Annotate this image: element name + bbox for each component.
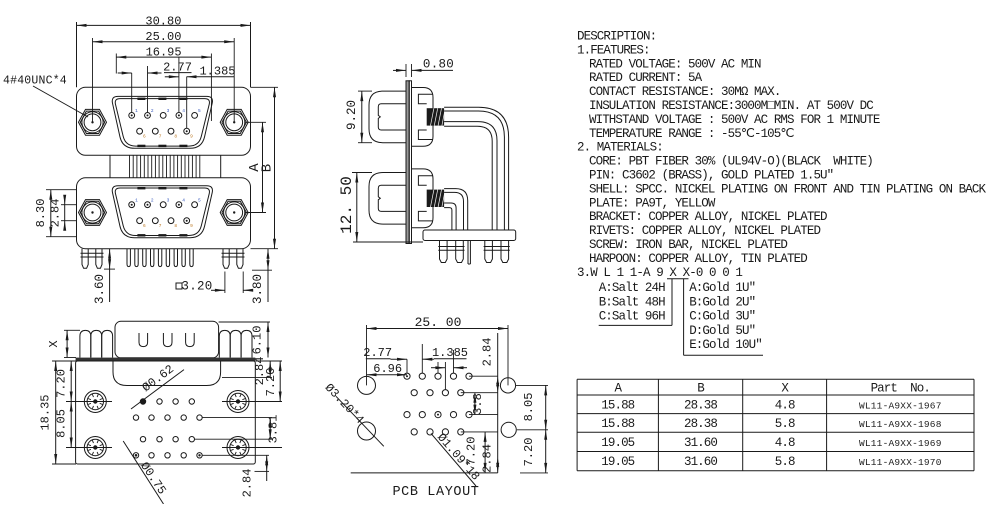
svg-text:WL11-A9XX-1968: WL11-A9XX-1968: [859, 419, 942, 430]
svg-text:4: 4: [182, 108, 185, 114]
svg-text:WL11-A9XX-1967: WL11-A9XX-1967: [859, 401, 942, 412]
svg-text:Part No.: Part No.: [871, 381, 930, 395]
svg-text:3: 3: [167, 108, 170, 114]
svg-text:4.8: 4.8: [775, 436, 795, 450]
svg-text:2.84: 2.84: [481, 444, 495, 473]
svg-text:SHELL: SPCC. NICKEL PLATING ON: SHELL: SPCC. NICKEL PLATING ON FRONT AND…: [589, 182, 986, 196]
svg-text:INSULATION RESISTANCE:3000M□MI: INSULATION RESISTANCE:3000M□MIN. AT 500V…: [589, 99, 873, 113]
svg-text:B:Gold 2U″: B:Gold 2U″: [689, 295, 755, 309]
svg-text:E:Gold 10U″: E:Gold 10U″: [689, 338, 762, 352]
svg-text:RATED CURRENT: 5A: RATED CURRENT: 5A: [589, 71, 703, 85]
svg-text:BRACKET: COPPER ALLOY, NICKEL: BRACKET: COPPER ALLOY, NICKEL PLATED: [589, 210, 827, 224]
svg-text:1.FEATURES:: 1.FEATURES:: [577, 43, 650, 57]
svg-text:2: 2: [151, 198, 154, 204]
svg-text:RIVETS: COPPER ALLOY, NICKEL P: RIVETS: COPPER ALLOY, NICKEL PLATED: [589, 224, 820, 238]
svg-text:RATED VOLTAGE: 500V AC MIN: RATED VOLTAGE: 500V AC MIN: [589, 57, 761, 71]
svg-text:B:Salt 48H: B:Salt 48H: [599, 295, 665, 309]
svg-text:28.38: 28.38: [684, 399, 717, 413]
svg-text:TEMPERATURE RANGE : -55℃-105℃: TEMPERATURE RANGE : -55℃-105℃: [589, 127, 794, 141]
svg-text:1.385: 1.385: [432, 346, 468, 360]
svg-text:C:Salt 96H: C:Salt 96H: [599, 310, 665, 324]
svg-text:8.30: 8.30: [34, 199, 48, 228]
svg-text:8: 8: [174, 223, 177, 229]
svg-text:7: 7: [159, 134, 162, 140]
svg-text:PLATE: PA9T, YELLOW: PLATE: PA9T, YELLOW: [589, 196, 716, 210]
svg-text:0.80: 0.80: [423, 58, 454, 72]
svg-text:4.8: 4.8: [775, 399, 795, 413]
svg-text:HARPOON: COPPER ALLOY, TIN PLA: HARPOON: COPPER ALLOY, TIN PLATED: [589, 252, 807, 266]
svg-text:PIN: C3602 (BRASS), GOLD PLATE: PIN: C3602 (BRASS), GOLD PLATED 1.5U″: [589, 169, 833, 183]
svg-text:25.00: 25.00: [145, 30, 181, 44]
svg-text:WL11-A9XX-1969: WL11-A9XX-1969: [859, 438, 942, 449]
svg-text:9.20: 9.20: [345, 100, 359, 130]
svg-text:25. 00: 25. 00: [415, 315, 462, 330]
svg-text:5: 5: [198, 198, 201, 204]
svg-text:8.05: 8.05: [522, 393, 536, 422]
svg-text:3: 3: [167, 198, 170, 204]
svg-text:6: 6: [143, 134, 146, 140]
svg-text:18.35: 18.35: [39, 394, 53, 430]
svg-text:4: 4: [182, 198, 185, 204]
svg-text:3.60: 3.60: [93, 274, 107, 304]
svg-text:1: 1: [135, 198, 138, 204]
svg-text:19.05: 19.05: [601, 436, 634, 450]
svg-text:4#40UNC*4: 4#40UNC*4: [3, 75, 67, 88]
svg-text:2: 2: [151, 108, 154, 114]
svg-text:WITHSTAND VOLTAGE : 500V AC RM: WITHSTAND VOLTAGE : 500V AC RMS FOR 1 MI…: [589, 113, 880, 127]
svg-text:1: 1: [135, 108, 138, 114]
svg-text:7: 7: [159, 223, 162, 229]
svg-text:3.80: 3.80: [251, 274, 265, 304]
svg-text:9: 9: [190, 134, 193, 140]
svg-text:3.81: 3.81: [267, 415, 281, 444]
svg-text:C:Gold 3U″: C:Gold 3U″: [689, 310, 755, 324]
svg-text:A:Salt 24H: A:Salt 24H: [599, 281, 665, 295]
svg-text:DESCRIPTION:: DESCRIPTION:: [577, 30, 656, 44]
svg-text:30.80: 30.80: [145, 14, 181, 28]
svg-text:7.20: 7.20: [55, 369, 69, 398]
svg-text:3.20: 3.20: [181, 280, 212, 294]
svg-text:6: 6: [143, 223, 146, 229]
svg-text:16.95: 16.95: [146, 46, 182, 60]
svg-text:2.84: 2.84: [241, 469, 255, 498]
svg-text:31.60: 31.60: [684, 436, 717, 450]
svg-text:B: B: [260, 164, 276, 172]
svg-text:19.05: 19.05: [601, 455, 634, 469]
svg-text:8.05: 8.05: [55, 409, 69, 438]
svg-text:X: X: [47, 340, 61, 347]
svg-text:15.88: 15.88: [601, 399, 634, 413]
svg-text:31.60: 31.60: [684, 455, 717, 469]
svg-text:2.84: 2.84: [49, 199, 63, 228]
svg-text:6.10: 6.10: [251, 326, 265, 355]
svg-text:2. MATERIALS:: 2. MATERIALS:: [577, 141, 663, 155]
svg-text:5.8: 5.8: [775, 455, 795, 469]
svg-text:7.20: 7.20: [522, 438, 536, 467]
svg-text:3.W L 1 1-A 9 X X-0 0 0 1: 3.W L 1 1-A 9 X X-0 0 0 1: [577, 266, 742, 280]
svg-text:2.77: 2.77: [363, 346, 392, 360]
svg-text:9: 9: [190, 223, 193, 229]
svg-text:7.20: 7.20: [264, 368, 278, 397]
svg-text:15.88: 15.88: [601, 417, 634, 431]
svg-text:CORE: PBT FIBER 30% (UL94V-O)(: CORE: PBT FIBER 30% (UL94V-O)(BLACK WHIT…: [589, 155, 873, 169]
svg-text:CONTACT RESISTANCE: 30MΩ MAX.: CONTACT RESISTANCE: 30MΩ MAX.: [589, 85, 780, 99]
svg-text:WL11-A9XX-1970: WL11-A9XX-1970: [859, 457, 942, 468]
svg-text:5: 5: [198, 108, 201, 114]
svg-text:2.84: 2.84: [481, 338, 495, 367]
svg-text:5.8: 5.8: [775, 417, 795, 431]
svg-text:12. 50: 12. 50: [338, 176, 356, 234]
svg-text:PCB LAYOUT: PCB LAYOUT: [392, 485, 479, 500]
svg-text:8: 8: [174, 134, 177, 140]
svg-text:A:Gold 1U″: A:Gold 1U″: [689, 281, 755, 295]
svg-text:D:Gold 5U″: D:Gold 5U″: [689, 324, 755, 338]
svg-text:3.8: 3.8: [471, 393, 485, 415]
svg-text:SCREW: IRON BAR, NICKEL PLATED: SCREW: IRON BAR, NICKEL PLATED: [589, 238, 787, 252]
svg-text:28.38: 28.38: [684, 417, 717, 431]
